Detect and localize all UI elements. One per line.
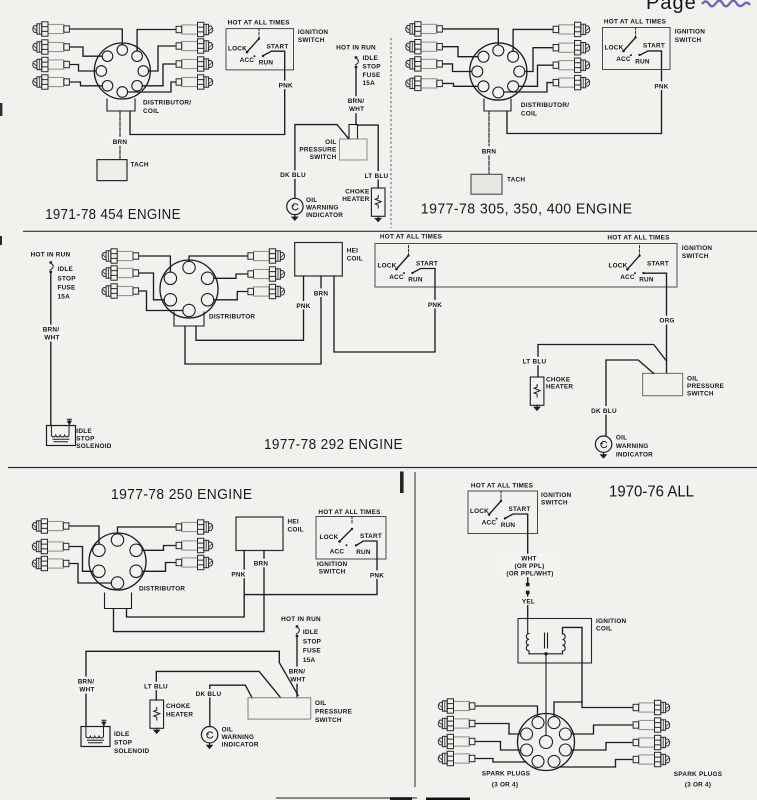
svg-text:OIL: OIL xyxy=(306,197,317,204)
svg-text:HEATER: HEATER xyxy=(166,711,193,718)
svg-text:IDLE: IDLE xyxy=(363,55,379,62)
svg-text:SWITCH: SWITCH xyxy=(541,500,568,507)
wire P2 to distributor xyxy=(70,547,93,572)
wire P3 to distributor xyxy=(476,742,521,751)
BRN/WHT wire fuse to solenoid xyxy=(50,274,52,426)
ground at warning indicator xyxy=(206,743,213,748)
svg-text:INDICATOR: INDICATOR xyxy=(306,212,343,219)
svg-text:HOT AT ALL TIMES: HOT AT ALL TIMES xyxy=(380,234,443,241)
svg-text:WHT: WHT xyxy=(44,335,59,342)
connector dots xyxy=(526,583,530,587)
svg-text:SWITCH: SWITCH xyxy=(298,37,325,44)
spark plug P1 (left bank) xyxy=(406,22,443,36)
svg-text:OIL: OIL xyxy=(222,727,233,734)
svg-text:PNK: PNK xyxy=(654,83,668,90)
ground at warning indicator xyxy=(292,215,299,220)
oil warning indicator xyxy=(595,436,611,452)
svg-text:CHOKE: CHOKE xyxy=(166,703,191,710)
wire P1 to distributor xyxy=(476,706,538,716)
wire coil branch to plug P5 xyxy=(582,702,632,708)
svg-text:PNK: PNK xyxy=(231,572,245,579)
ignition switch box xyxy=(226,29,294,70)
svg-text:HOT IN RUN: HOT IN RUN xyxy=(281,616,321,623)
svg-text:FUSE: FUSE xyxy=(363,72,382,79)
svg-text:LT BLU: LT BLU xyxy=(144,684,168,691)
svg-text:ACC: ACC xyxy=(330,548,345,555)
svg-text:COIL: COIL xyxy=(347,256,363,263)
ignition switch internals xyxy=(470,491,531,529)
LT BLU branch wire to choke heater xyxy=(538,345,667,378)
choke heater xyxy=(530,377,544,405)
idle stop solenoid xyxy=(81,720,110,746)
svg-text:IGNITION: IGNITION xyxy=(317,561,348,568)
ignition switch box (dual) xyxy=(375,244,677,288)
svg-text:15A: 15A xyxy=(303,657,316,664)
svg-text:COIL: COIL xyxy=(143,108,159,115)
BRN/WHT wire fuse to oil pressure switch xyxy=(355,69,357,125)
ignition switch box xyxy=(316,517,386,560)
tach box xyxy=(97,160,127,181)
distributor body xyxy=(160,260,218,318)
coil secondary winding xyxy=(563,634,566,654)
wire P7 to distributor xyxy=(571,743,632,751)
svg-text:WARNING: WARNING xyxy=(306,204,339,211)
spark plug P2 (left bank) xyxy=(406,40,443,54)
wire P8 to distributor xyxy=(128,82,175,92)
PNK wire from switch to distributor xyxy=(507,51,662,134)
svg-text:(3 OR 4): (3 OR 4) xyxy=(685,782,712,789)
svg-text:PNK: PNK xyxy=(279,83,293,90)
svg-text:SPARK PLUGS: SPARK PLUGS xyxy=(482,771,531,778)
svg-text:OIL: OIL xyxy=(687,375,698,382)
svg-text:15A: 15A xyxy=(58,294,71,301)
svg-text:1977-78 292 ENGINE: 1977-78 292 ENGINE xyxy=(264,437,403,453)
svg-text:PNK: PNK xyxy=(296,303,310,310)
svg-text:COIL: COIL xyxy=(596,626,612,633)
PNK wire from switch to distributor xyxy=(130,51,285,134)
svg-text:HEI: HEI xyxy=(288,518,299,525)
svg-text:WHT: WHT xyxy=(349,106,364,113)
wire P2 to distributor xyxy=(71,47,103,56)
svg-text:OIL: OIL xyxy=(616,434,627,441)
svg-text:DISTRIBUTOR/: DISTRIBUTOR/ xyxy=(143,100,191,107)
BRN tach wire xyxy=(119,111,121,160)
oil pressure switch body xyxy=(643,373,683,395)
spark plug P7 (right bank) xyxy=(633,735,670,749)
WHT wire switch to coil xyxy=(505,514,528,584)
svg-text:1970-76 ALL: 1970-76 ALL xyxy=(609,484,694,501)
svg-text:TACH: TACH xyxy=(131,162,149,169)
ignition switch internals xyxy=(319,517,382,556)
section divider line 2 xyxy=(8,467,757,469)
bottom edge black bar A xyxy=(390,797,412,800)
spark plug P4 (left bank) xyxy=(438,751,475,765)
ground at warning indicator xyxy=(600,453,607,458)
tach box xyxy=(471,174,502,194)
svg-text:IDLE: IDLE xyxy=(114,731,130,738)
svg-text:LT BLU: LT BLU xyxy=(365,173,389,180)
svg-text:Page: Page xyxy=(646,0,697,14)
spark plug P8 (right bank) xyxy=(176,75,213,89)
svg-text:HOT AT ALL TIMES: HOT AT ALL TIMES xyxy=(228,20,291,27)
coil core xyxy=(545,633,548,648)
svg-text:PRESSURE: PRESSURE xyxy=(687,383,725,390)
ignition switch box xyxy=(603,28,671,70)
svg-text:BRN: BRN xyxy=(482,148,497,155)
spark plug P6 (right bank) xyxy=(176,555,213,569)
spark plug P6 (right bank) xyxy=(553,41,590,55)
scan mark divider top xyxy=(400,472,404,494)
svg-text:BRN/: BRN/ xyxy=(78,678,95,685)
BRN wire coil to distributor (outer loop) xyxy=(114,551,265,632)
svg-text:SPARK PLUGS: SPARK PLUGS xyxy=(674,771,723,778)
wire P6 to distributor xyxy=(142,563,175,572)
wire P6 to distributor xyxy=(525,48,552,72)
scan mark left edge B xyxy=(0,236,2,245)
wire P5 to distributor xyxy=(214,274,247,278)
spark plug P4 (right bank) xyxy=(176,520,213,534)
svg-text:WARNING: WARNING xyxy=(616,443,649,450)
wire P5 to distributor xyxy=(513,29,552,51)
distributor connector block xyxy=(105,593,132,609)
wire P6 to distributor xyxy=(214,292,247,300)
svg-text:1977-78 305, 350, 400 ENGI: 1977-78 305, 350, 400 ENGINE xyxy=(421,202,633,218)
HEI coil box xyxy=(295,243,343,277)
spark plug P6 (right bank) xyxy=(633,718,670,732)
spark plug P2 (left bank) xyxy=(33,40,70,54)
svg-text:COIL: COIL xyxy=(521,110,537,117)
svg-text:HEATER: HEATER xyxy=(342,196,369,203)
oil pressure switch body xyxy=(248,698,311,719)
spark plug P4 (left bank) xyxy=(33,75,70,89)
choke heater xyxy=(371,188,385,216)
spark plug P3 (left bank) xyxy=(32,556,69,570)
svg-text:FUSE: FUSE xyxy=(303,648,322,655)
svg-text:SOLENOID: SOLENOID xyxy=(76,443,112,450)
choke heater xyxy=(150,700,164,728)
wire P7 to distributor xyxy=(519,65,552,86)
svg-text:FUSE: FUSE xyxy=(58,285,77,292)
svg-text:BRN/: BRN/ xyxy=(43,326,60,333)
svg-text:DK BLU: DK BLU xyxy=(280,172,306,179)
svg-text:BRN: BRN xyxy=(113,139,128,146)
dashed vertical divider top xyxy=(390,38,392,228)
wire P4 to distributor xyxy=(444,83,478,86)
ignition switch box xyxy=(468,491,538,534)
spark plug P3 (left bank) xyxy=(406,57,443,71)
svg-text:WARNING: WARNING xyxy=(222,734,255,741)
DK BLU wire to warning indicator xyxy=(210,685,252,726)
svg-text:DISTRIBUTOR: DISTRIBUTOR xyxy=(139,586,185,593)
distributor/coil body xyxy=(94,43,150,99)
svg-text:1977-78 250 ENGINE: 1977-78 250 ENGINE xyxy=(111,487,253,503)
wire P5 to distributor xyxy=(142,546,175,551)
vertical divider bottom xyxy=(414,472,416,787)
svg-text:HEATER: HEATER xyxy=(546,383,573,390)
wire P3 to distributor xyxy=(140,291,183,311)
spark plug P3 (left bank) xyxy=(438,734,475,748)
ground at choke heater xyxy=(534,405,541,410)
spark plug P1 (left bank) xyxy=(102,249,139,263)
svg-text:HOT IN RUN: HOT IN RUN xyxy=(31,251,71,258)
svg-text:RUN: RUN xyxy=(356,549,371,556)
spark plug P7 (right bank) xyxy=(553,58,590,72)
svg-text:CHOKE: CHOKE xyxy=(345,188,370,195)
idle stop fuse xyxy=(296,625,300,637)
svg-text:IGNITION: IGNITION xyxy=(298,29,329,36)
spark plug P1 (left bank) xyxy=(33,22,70,36)
svg-text:DK BLU: DK BLU xyxy=(196,691,222,698)
svg-text:STOP: STOP xyxy=(114,740,133,747)
ORG wire right switch to oil pressure switch xyxy=(645,273,667,373)
ground at choke heater xyxy=(153,728,160,733)
idle stop solenoid xyxy=(47,419,76,445)
distributor cap terminals xyxy=(164,261,214,316)
spark plug P6 (right bank) xyxy=(176,39,213,53)
right ignition switch internals xyxy=(608,246,669,284)
spark plug P3 (left bank) xyxy=(33,57,70,71)
coil bottom bus xyxy=(529,653,563,655)
ground at choke heater xyxy=(375,217,382,222)
wire P2 to distributor xyxy=(476,724,521,735)
svg-text:WHT: WHT xyxy=(79,687,94,694)
distributor body xyxy=(89,533,146,590)
wire P3 to distributor xyxy=(71,65,97,72)
svg-text:IGNITION: IGNITION xyxy=(541,492,572,499)
section divider line 1 xyxy=(23,230,757,232)
spark plug P7 (right bank) xyxy=(176,57,213,71)
svg-text:SOLENOID: SOLENOID xyxy=(114,748,150,755)
svg-text:IGNITION: IGNITION xyxy=(682,245,713,252)
PNK wire coil to distributor (inner loop) xyxy=(127,551,245,618)
svg-text:INDICATOR: INDICATOR xyxy=(222,742,259,749)
svg-text:STOP: STOP xyxy=(303,639,322,646)
distributor cap terminals xyxy=(521,717,572,768)
wire P6 to distributor xyxy=(149,46,175,71)
distributor connector block xyxy=(484,99,511,111)
distributor connector block xyxy=(174,312,204,326)
oil pressure switch connector xyxy=(349,125,358,140)
svg-text:(3 OR 4): (3 OR 4) xyxy=(492,782,519,789)
PNK wire coil to distributor xyxy=(196,276,304,340)
spark plug P3 (left bank) xyxy=(102,284,139,298)
svg-text:IDLE: IDLE xyxy=(76,428,92,435)
spark plug P5 (right bank) xyxy=(553,22,590,36)
coil feed wire top terminal to plug P4 xyxy=(189,256,247,261)
PNK wire left switch to coil xyxy=(334,269,435,353)
svg-text:BRN/: BRN/ xyxy=(348,98,365,105)
coil primary winding xyxy=(526,619,529,654)
svg-text:LT BLU: LT BLU xyxy=(523,359,547,366)
svg-text:PNK: PNK xyxy=(428,302,442,309)
svg-text:COIL: COIL xyxy=(288,527,304,534)
oil pressure switch body xyxy=(340,139,368,160)
distributor cap terminals xyxy=(472,45,525,98)
svg-text:DK BLU: DK BLU xyxy=(591,408,617,415)
wire top terminal to plug P4 xyxy=(118,527,176,534)
svg-text:HOT AT ALL TIMES: HOT AT ALL TIMES xyxy=(607,235,670,242)
bottom edge gray line xyxy=(276,797,417,799)
spark plug P5 (right bank) xyxy=(248,267,285,281)
svg-text:STOP: STOP xyxy=(363,63,382,70)
DK BLU wire to warning indicator xyxy=(606,360,654,436)
distributor cap terminals xyxy=(96,45,149,98)
wire P2 to distributor xyxy=(140,273,165,300)
svg-text:SWITCH: SWITCH xyxy=(315,717,342,724)
spark plug P2 (left bank) xyxy=(438,716,475,730)
wire coil to distributor terminal xyxy=(554,702,582,716)
svg-text:WHT: WHT xyxy=(521,555,536,562)
svg-text:1971-78 454 ENGINE: 1971-78 454 ENGINE xyxy=(45,207,181,223)
wire P8 to distributor xyxy=(504,83,552,92)
svg-text:IDLE: IDLE xyxy=(58,266,74,273)
svg-text:IGNITION: IGNITION xyxy=(675,29,706,36)
wire P6 to distributor xyxy=(571,725,632,734)
svg-text:SWITCH: SWITCH xyxy=(310,154,337,161)
svg-text:PRESSURE: PRESSURE xyxy=(299,146,337,153)
svg-text:DISTRIBUTOR: DISTRIBUTOR xyxy=(209,314,255,321)
distributor body xyxy=(518,714,575,771)
wire P3 to distributor xyxy=(444,64,472,72)
svg-text:HOT AT ALL TIMES: HOT AT ALL TIMES xyxy=(471,482,534,489)
svg-text:BRN: BRN xyxy=(254,561,269,568)
svg-text:WHT: WHT xyxy=(290,677,305,684)
wire P1 to distributor xyxy=(71,29,123,45)
spark plug P5 (right bank) xyxy=(176,538,213,552)
svg-text:SWITCH: SWITCH xyxy=(319,568,346,575)
svg-text:HOT IN RUN: HOT IN RUN xyxy=(336,44,376,51)
svg-text:TACH: TACH xyxy=(507,177,525,184)
spark plug P4 (right bank) xyxy=(248,249,285,263)
svg-text:HOT AT ALL TIMES: HOT AT ALL TIMES xyxy=(318,509,381,516)
ignition switch internals xyxy=(604,28,665,66)
wire P1 to distributor xyxy=(70,526,99,544)
svg-text:SWITCH: SWITCH xyxy=(687,391,714,398)
svg-text:BRN: BRN xyxy=(314,290,329,297)
junction dot xyxy=(544,652,547,655)
idle stop fuse xyxy=(50,261,54,273)
left ignition switch internals xyxy=(377,246,438,284)
spark plug P1 (left bank) xyxy=(438,699,475,713)
svg-text:STOP: STOP xyxy=(58,276,77,283)
svg-text:DISTRIBUTOR/: DISTRIBUTOR/ xyxy=(521,102,569,109)
svg-text:PRESSURE: PRESSURE xyxy=(315,709,353,716)
spark plug P5 (right bank) xyxy=(633,700,670,714)
wire P4 to distributor xyxy=(476,759,526,763)
BRN/WHT wire fuse to oil pressure switch xyxy=(296,638,298,698)
idle stop fuse xyxy=(355,56,359,68)
oil warning indicator xyxy=(287,198,303,214)
svg-text:IGNITION: IGNITION xyxy=(596,618,627,625)
LT BLU branch wire to choke heater xyxy=(156,671,280,700)
distributor cap terminals xyxy=(93,534,143,589)
svg-text:SWITCH: SWITCH xyxy=(682,253,709,260)
ignition coil box xyxy=(518,619,592,664)
spark plug P6 (right bank) xyxy=(248,284,285,298)
svg-text:HOT AT ALL TIMES: HOT AT ALL TIMES xyxy=(604,18,667,25)
svg-text:START: START xyxy=(360,533,382,540)
svg-text:YEL: YEL xyxy=(522,599,535,606)
bottom edge black bar B xyxy=(426,798,470,800)
BRN wire coil to distributor xyxy=(185,276,321,364)
svg-text:(OR PPL/WHT): (OR PPL/WHT) xyxy=(506,571,553,578)
YEL wire to ignition coil xyxy=(527,594,529,619)
wire P3 to distributor xyxy=(70,564,111,584)
coil HT wire to distributor center xyxy=(545,654,547,736)
wire P2 to distributor xyxy=(444,47,478,57)
svg-text:LOCK: LOCK xyxy=(319,534,338,541)
spark plug P5 (right bank) xyxy=(176,22,213,36)
DK BLU wire to warning indicator xyxy=(295,125,349,198)
svg-text:15A: 15A xyxy=(363,80,376,87)
coil secondary top wire xyxy=(563,627,583,702)
svg-text:HEI: HEI xyxy=(347,247,358,254)
spark plug P4 (left bank) xyxy=(406,76,443,90)
wire P5 to distributor xyxy=(137,30,175,51)
svg-text:PNK: PNK xyxy=(370,572,384,579)
LT BLU wire to choke heater xyxy=(358,125,379,188)
scan mark left edge A xyxy=(0,103,2,116)
svg-text:OIL: OIL xyxy=(315,700,326,707)
svg-text:BRN/: BRN/ xyxy=(289,668,306,675)
svg-text:ORG: ORG xyxy=(659,318,674,325)
spark plug P8 (right bank) xyxy=(553,75,590,89)
distributor connector block xyxy=(107,99,135,111)
BRN tach wire xyxy=(488,111,490,174)
spark plug P2 (left bank) xyxy=(102,266,139,280)
PNK wire switch to coil circuit xyxy=(244,541,377,595)
svg-text:(OR PPL): (OR PPL) xyxy=(514,563,544,570)
svg-text:STOP: STOP xyxy=(76,436,95,443)
BRN/WHT loop wire to idle stop solenoid xyxy=(86,651,298,726)
oil warning indicator xyxy=(201,727,217,743)
wire P1 to distributor xyxy=(444,29,499,45)
svg-text:IDLE: IDLE xyxy=(303,629,319,636)
wire P8 to distributor xyxy=(560,760,632,768)
svg-text:OIL: OIL xyxy=(325,139,336,146)
spark plug P1 (left bank) xyxy=(32,519,69,533)
ignition switch internals xyxy=(228,29,289,67)
handwritten blue scribble xyxy=(702,1,750,7)
svg-text:SWITCH: SWITCH xyxy=(675,37,702,44)
HEI coil box xyxy=(236,517,283,551)
wire P4 to distributor xyxy=(71,82,103,86)
svg-text:INDICATOR: INDICATOR xyxy=(616,451,653,458)
spark plug P2 (left bank) xyxy=(32,539,69,553)
wire P7 to distributor xyxy=(142,64,175,86)
wire P1 to distributor xyxy=(140,256,171,272)
spark plug P8 (right bank) xyxy=(633,752,670,766)
distributor/coil body xyxy=(470,43,527,100)
